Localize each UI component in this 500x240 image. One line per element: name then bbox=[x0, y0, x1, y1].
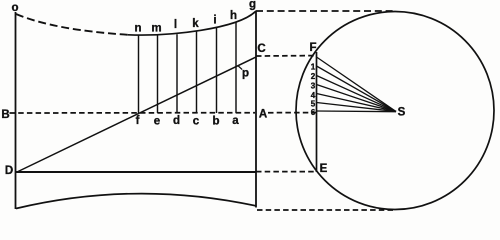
svg-text:p: p bbox=[242, 68, 249, 80]
svg-text:n: n bbox=[134, 23, 141, 35]
svg-text:e: e bbox=[154, 116, 160, 128]
svg-text:F: F bbox=[309, 42, 316, 54]
svg-text:A: A bbox=[259, 109, 267, 121]
svg-text:S: S bbox=[398, 107, 406, 119]
svg-text:b: b bbox=[212, 116, 219, 128]
svg-text:3: 3 bbox=[311, 82, 316, 91]
svg-text:k: k bbox=[192, 18, 199, 30]
svg-text:o: o bbox=[11, 2, 18, 14]
svg-text:h: h bbox=[230, 10, 237, 22]
svg-text:1: 1 bbox=[311, 63, 316, 72]
svg-text:g: g bbox=[249, 0, 256, 11]
svg-text:m: m bbox=[151, 23, 161, 35]
svg-text:l: l bbox=[174, 19, 177, 31]
svg-text:C: C bbox=[257, 43, 265, 55]
svg-text:c: c bbox=[193, 116, 200, 128]
svg-text:D: D bbox=[5, 165, 13, 177]
svg-text:2: 2 bbox=[311, 72, 316, 81]
svg-text:E: E bbox=[320, 163, 328, 175]
svg-text:6: 6 bbox=[311, 108, 316, 117]
svg-text:i: i bbox=[213, 15, 216, 27]
svg-text:f: f bbox=[136, 115, 140, 127]
svg-text:B: B bbox=[1, 109, 9, 121]
svg-text:d: d bbox=[173, 115, 180, 127]
svg-text:a: a bbox=[232, 115, 239, 127]
